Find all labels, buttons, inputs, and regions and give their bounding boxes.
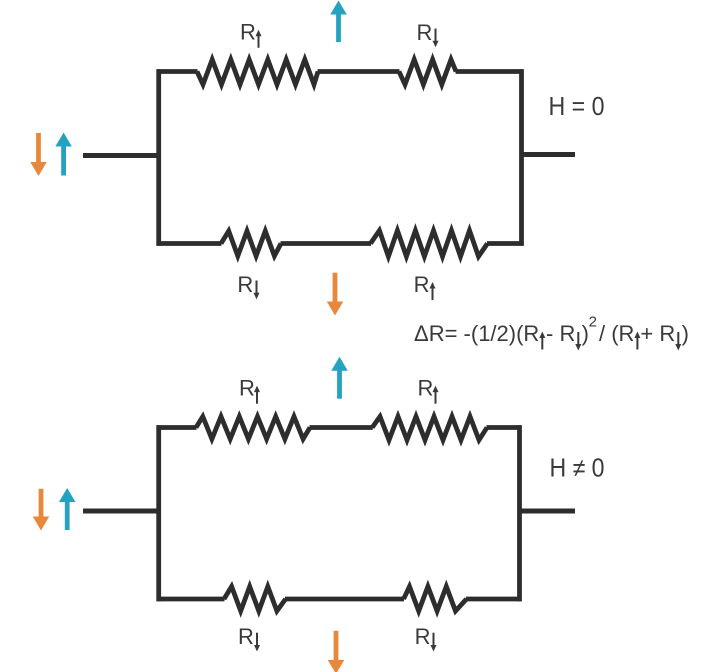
wire: bottom branch middle segment, circuit 2	[285, 597, 404, 602]
wire: top branch middle segment, circuit 1	[318, 69, 400, 74]
wire: bottom branch middle segment, circuit 1	[281, 241, 372, 246]
wire: left input lead, circuit 2	[83, 509, 161, 514]
wire: top branch left segment, circuit 2	[157, 425, 197, 430]
wire: right output lead, circuit 2	[520, 509, 576, 514]
svg-text:R: R	[418, 375, 434, 400]
svg-text:H = 0: H = 0	[549, 93, 605, 121]
node: right junction, circuit 1 (right vertical branch wire)	[519, 69, 524, 245]
value label R-up for circuit 2 top-left resistor	[239, 375, 260, 403]
wire: right output lead, circuit 1	[522, 152, 576, 157]
wire: top branch left segment, circuit 1	[157, 69, 198, 74]
svg-text:/ (R: / (R	[599, 321, 634, 346]
wire: top branch middle segment, circuit 2	[310, 425, 373, 430]
value label R-down for circuit 2 bottom-right resistor	[415, 624, 437, 652]
wire: bottom branch right segment, circuit 2	[466, 597, 522, 602]
wire: top branch right segment, circuit 1	[456, 69, 524, 74]
wire: bottom branch left segment, circuit 1	[157, 241, 222, 246]
svg-text:R: R	[417, 20, 433, 45]
svg-text:R: R	[237, 272, 253, 297]
svg-text:R: R	[240, 20, 256, 45]
value label R-down for circuit 1 bottom-left resistor	[237, 272, 259, 300]
svg-text:- R: - R	[546, 321, 575, 346]
svg-text:2: 2	[589, 314, 597, 331]
svg-text:R: R	[414, 272, 430, 297]
resistor R-down (circuit 2, bottom-right, spin-down channel)	[404, 587, 467, 612]
spin arrow: cyan up (spin-up electron at input), circuit 1	[55, 133, 72, 176]
spin arrow: orange down (spin-down electron at input), circuit 2	[33, 489, 50, 531]
spin arrow: orange down (spin-down electron at input), circuit 1	[30, 133, 47, 176]
wire: left input lead, circuit 1	[83, 153, 161, 158]
wire: top branch right segment, circuit 2	[487, 425, 522, 430]
node: right junction, circuit 2 (right vertical branch wire)	[517, 425, 522, 601]
value label R-up for circuit 2 top-right resistor	[418, 375, 439, 403]
spin arrow: cyan up (spin-up electron at input), circuit 2	[59, 488, 75, 530]
value label R-up for circuit 1 bottom-right resistor	[414, 272, 436, 300]
resistor R-down (circuit 2, bottom-left, spin-down channel)	[224, 587, 286, 612]
value label R-up for circuit 1 top-left resistor	[240, 20, 262, 48]
node: left junction, circuit 2 (left vertical branch wire)	[156, 425, 161, 601]
svg-text:R: R	[415, 624, 431, 649]
value label R-down for circuit 1 top-right resistor	[417, 20, 439, 48]
svg-text:H ≠ 0: H ≠ 0	[550, 455, 605, 483]
resistor R-down (circuit 1, top-right, spin-up channel)	[399, 60, 456, 85]
svg-text:R: R	[239, 375, 255, 400]
wire: bottom branch left segment, circuit 2	[157, 597, 225, 602]
svg-text:ΔR= -(1/2)(R: ΔR= -(1/2)(R	[414, 321, 539, 346]
resistor R-up (circuit 2, top-left, spin-up channel)	[196, 417, 310, 440]
resistor R-down (circuit 1, bottom-left, spin-down channel)	[221, 231, 281, 256]
resistor R-up (circuit 2, top-right, spin-up channel)	[372, 417, 487, 441]
spin arrow: cyan up (spin-up channel above top branch), circuit 1	[330, 1, 347, 43]
spin arrow: orange down (spin-down channel below bottom branch), circuit 2	[328, 631, 345, 672]
resistor R-up (circuit 1, bottom-right, spin-down channel)	[371, 231, 488, 257]
svg-text:R: R	[238, 624, 254, 649]
formula: ΔR = -(1/2)(R-up - R-down)^2 / (R-up + R-down)	[414, 314, 689, 351]
node: left junction, circuit 1 (left vertical branch wire)	[156, 69, 161, 245]
spin arrow: cyan up (spin-up channel above top branch), circuit 2	[331, 357, 348, 399]
resistor R-up (circuit 1, top-left, spin-up channel)	[197, 60, 318, 85]
wire: bottom branch right segment, circuit 1	[487, 241, 524, 246]
svg-text:): )	[682, 321, 689, 346]
spin arrow: orange down (spin-down channel below bottom branch), circuit 1	[327, 273, 344, 316]
value label R-down for circuit 2 bottom-left resistor	[238, 624, 260, 652]
svg-text:+ R: + R	[640, 321, 675, 346]
